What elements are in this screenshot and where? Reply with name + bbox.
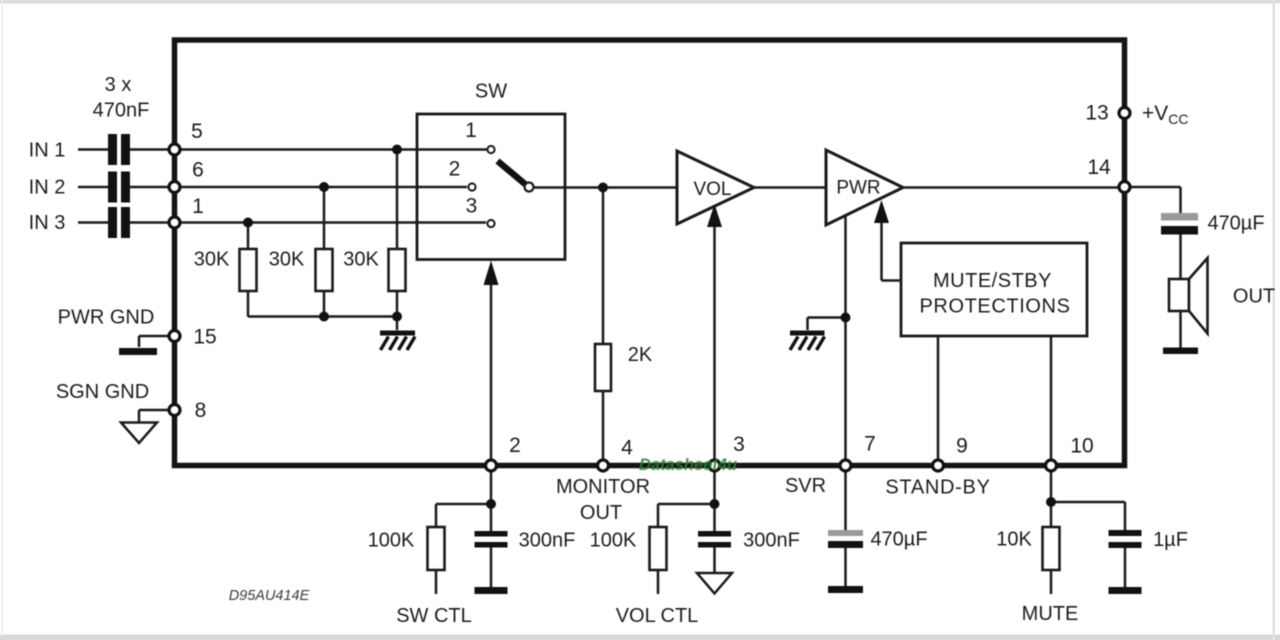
svg-text:6: 6 [192, 159, 204, 182]
svg-text:MUTE: MUTE [1022, 603, 1079, 625]
svg-text:3: 3 [733, 433, 745, 456]
svg-text:30K: 30K [269, 249, 305, 271]
svg-text:5: 5 [191, 120, 203, 143]
svg-text:D95AU414E: D95AU414E [229, 588, 310, 604]
svg-text:4: 4 [621, 437, 633, 460]
svg-text:MONITOR: MONITOR [556, 476, 650, 498]
svg-text:300nF: 300nF [519, 530, 576, 552]
svg-text:470nF: 470nF [93, 100, 150, 122]
svg-text:7: 7 [864, 433, 876, 456]
svg-text:PWR GND: PWR GND [58, 307, 155, 329]
svg-text:15: 15 [193, 326, 216, 349]
svg-text:13: 13 [1085, 102, 1108, 125]
svg-text:100K: 100K [590, 530, 637, 552]
svg-text:PWR: PWR [836, 178, 880, 199]
svg-text:14: 14 [1087, 156, 1111, 179]
svg-text:3: 3 [466, 195, 478, 218]
svg-text:Datasheet4u: Datasheet4u [639, 456, 737, 474]
svg-text:470µF: 470µF [870, 529, 927, 551]
svg-text:PROTECTIONS: PROTECTIONS [919, 296, 1070, 318]
svg-text:SW: SW [475, 81, 507, 103]
svg-text:SVR: SVR [785, 475, 826, 497]
svg-text:VOL CTL: VOL CTL [616, 605, 699, 627]
svg-text:OUT: OUT [580, 502, 622, 524]
svg-text:IN 3: IN 3 [29, 212, 66, 234]
svg-text:100K: 100K [368, 530, 415, 552]
svg-text:SGN GND: SGN GND [56, 381, 149, 403]
svg-text:8: 8 [195, 399, 207, 422]
svg-text:30K: 30K [343, 249, 379, 271]
svg-text:3 x: 3 x [105, 74, 132, 96]
svg-text:30K: 30K [194, 249, 230, 271]
svg-text:IN 2: IN 2 [29, 177, 66, 199]
svg-text:VOL: VOL [693, 179, 731, 200]
svg-text:2: 2 [449, 158, 461, 181]
svg-text:470µF: 470µF [1207, 213, 1264, 235]
svg-text:2K: 2K [628, 344, 653, 366]
svg-text:1: 1 [465, 119, 477, 142]
svg-text:9: 9 [956, 435, 968, 458]
svg-text:OUT: OUT [1233, 286, 1275, 308]
svg-text:1µF: 1µF [1153, 529, 1188, 551]
svg-text:MUTE/STBY: MUTE/STBY [933, 270, 1052, 292]
svg-text:10: 10 [1070, 435, 1093, 458]
svg-text:IN 1: IN 1 [29, 140, 66, 162]
svg-text:300nF: 300nF [743, 530, 800, 552]
svg-text:10K: 10K [996, 529, 1032, 551]
svg-text:SW CTL: SW CTL [396, 605, 472, 627]
svg-text:2: 2 [509, 434, 521, 457]
svg-text:STAND-BY: STAND-BY [885, 477, 990, 499]
svg-text:1: 1 [192, 195, 204, 218]
